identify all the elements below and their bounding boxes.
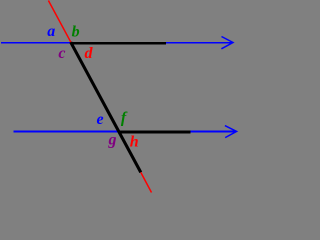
svg-text:h: h (130, 133, 139, 150)
transversal upper segment (red) (48, 1, 71, 43)
svg-text:d: d (85, 45, 94, 62)
top line arrowhead (221, 37, 233, 49)
transversal middle segment (thick black) (71, 42, 141, 172)
bottom ray segment (thick black) (118, 131, 190, 134)
svg-text:b: b (72, 24, 80, 41)
svg-text:e: e (97, 111, 104, 128)
top ray segment (thick black) (70, 42, 166, 45)
svg-text:c: c (58, 45, 65, 62)
top parallel line (blue) (1, 42, 232, 44)
svg-text:a: a (47, 23, 55, 40)
transversal lower segment (red) (141, 172, 152, 192)
bottom line arrowhead (225, 126, 237, 138)
bottom parallel line (blue) (13, 131, 235, 133)
svg-text:g: g (108, 132, 117, 149)
